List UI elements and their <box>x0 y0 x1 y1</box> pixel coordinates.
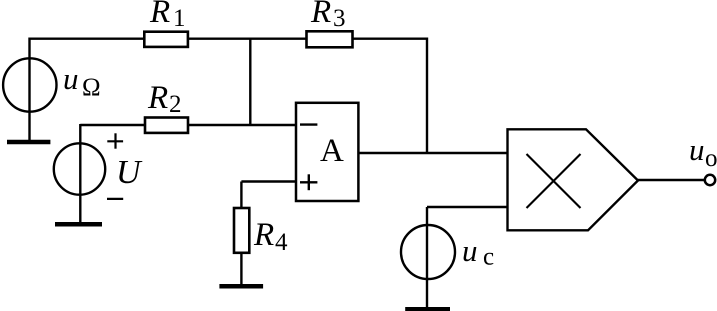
resistor R2 <box>145 80 188 133</box>
source uc <box>401 225 494 279</box>
wire top horizontal R1/R3 rail <box>30 38 428 40</box>
svg-text:u: u <box>63 61 79 96</box>
resistor R4 <box>234 208 288 256</box>
svg-text:Ω: Ω <box>82 74 101 101</box>
wire op-amp noninverting input horizontal <box>241 180 296 182</box>
resistor R3 <box>307 0 353 47</box>
wire vertical down to R4 <box>240 182 242 209</box>
wire multiplier output to terminal <box>638 179 705 181</box>
svg-text:R: R <box>147 80 168 116</box>
svg-text:A: A <box>320 133 344 169</box>
wire node vertical from top rail to inverting line <box>249 39 251 125</box>
svg-text:R: R <box>149 0 170 30</box>
wire feedback vertical R3 to output <box>426 38 428 154</box>
svg-text:R: R <box>310 0 331 30</box>
svg-text:4: 4 <box>275 229 288 256</box>
ground (U) <box>55 222 102 227</box>
plus input mark <box>300 181 317 183</box>
svg-text:o: o <box>705 145 717 172</box>
wire uc source vertical through circle to ground <box>426 207 428 309</box>
wire op-amp output to multiplier <box>358 152 507 154</box>
wire uΩ source vertical through circle to ground <box>28 38 30 142</box>
wire R4 bottom to ground <box>240 253 242 286</box>
resistor R1 <box>144 0 188 47</box>
wire uc to multiplier lower input <box>427 206 508 208</box>
svg-text:3: 3 <box>333 5 346 32</box>
svg-text:u: u <box>462 233 478 268</box>
output terminal <box>705 175 715 185</box>
wire U source vertical through circle to ground <box>79 124 81 225</box>
ground (R4) <box>219 284 263 289</box>
op-amp A <box>296 103 358 201</box>
svg-text:c: c <box>483 244 494 271</box>
svg-text:2: 2 <box>169 91 182 118</box>
multiplier (mixer) <box>508 129 639 230</box>
ground (uΩ) <box>7 140 50 145</box>
wire U top to op-amp inverting input through R2 <box>80 124 296 126</box>
svg-text:u: u <box>689 132 705 167</box>
ground (uc) <box>405 307 450 311</box>
svg-text:R: R <box>253 217 274 253</box>
source uΩ <box>3 58 100 111</box>
label uo <box>689 132 717 172</box>
source U <box>54 133 143 199</box>
minus input mark <box>300 123 317 125</box>
svg-text:U: U <box>116 154 143 191</box>
svg-text:1: 1 <box>173 5 186 32</box>
